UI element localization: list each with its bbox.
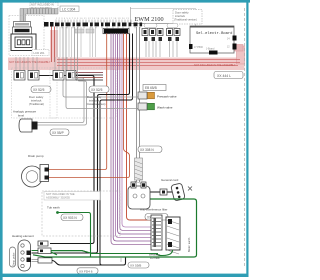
strip pin ticks <box>56 20 131 23</box>
prewash valve <box>138 92 177 99</box>
tub earth green wire <box>56 211 59 214</box>
svg-text:NOT INCLUDED IN THE ASSEMBLY: NOT INCLUDED IN THE ASSEMBLY <box>194 64 236 67</box>
ribbon cable horizontal <box>20 9 58 24</box>
mauve bundle vertical wires <box>111 34 151 245</box>
LCD label dashed <box>32 50 49 56</box>
label LC C306 <box>60 6 79 12</box>
top-left dashed note box <box>30 3 58 11</box>
svg-text:Door safely: Door safely <box>175 11 189 15</box>
svg-text:XX FD4 6: XX FD4 6 <box>79 270 93 274</box>
svg-text:Sel.electr.Board: Sel.electr.Board <box>196 31 232 36</box>
motor body <box>166 217 180 254</box>
green mains wire to right frame <box>33 199 197 257</box>
svg-text:level: level <box>18 114 24 118</box>
anti-interference filter body <box>128 158 150 209</box>
red flank wire left (to drain pump) <box>47 34 107 170</box>
svg-text:XX 308 N: XX 308 N <box>140 148 154 152</box>
bundle top connector <box>104 29 128 33</box>
pink ribbon from board connector <box>233 45 243 52</box>
door interlock group B connectors <box>53 71 76 81</box>
title box top line <box>131 8 196 10</box>
Sel electr Board box <box>189 26 237 55</box>
pressure switch wire pair <box>38 27 85 123</box>
teal page border bottom <box>0 274 249 277</box>
label leader <box>120 257 122 262</box>
motor earth green wire <box>156 250 173 256</box>
small connectors left of strip <box>44 22 49 27</box>
svg-text:J-Board: J-Board <box>206 48 215 51</box>
filter oval label <box>145 214 168 221</box>
teal page border left <box>0 0 3 280</box>
black wire pair from top right of bundle <box>32 34 130 254</box>
board connector bottom <box>209 51 218 55</box>
svg-text:Drain pump: Drain pump <box>28 154 44 158</box>
cluster ovals <box>144 24 157 28</box>
svg-text:General cord: General cord <box>161 178 179 182</box>
svg-text:LCD 201: LCD 201 <box>34 51 45 55</box>
svg-text:EWM 2100: EWM 2100 <box>135 16 164 23</box>
door interlock group A wires <box>16 57 37 70</box>
pink highlight vertical left <box>50 30 58 63</box>
teal page border top <box>0 0 250 3</box>
svg-text:Temp. probe: Temp. probe <box>13 252 16 266</box>
keyboard dashed panel <box>9 16 44 56</box>
red wires inside pink band <box>57 60 240 66</box>
svg-text:1/2 field: 1/2 field <box>150 256 160 260</box>
plug lead wire <box>148 191 172 193</box>
interlock B output wires <box>76 72 103 74</box>
faint gray wires from strip down to band <box>57 27 96 57</box>
svg-text:ASSEMBLY 302/055: ASSEMBLY 302/055 <box>46 196 70 200</box>
board connector right top <box>233 36 237 41</box>
svg-text:Prewash valve: Prewash valve <box>157 94 177 98</box>
svg-text:Anti-interference filter: Anti-interference filter <box>140 208 168 212</box>
tub earth dashed box <box>42 191 120 236</box>
interlock B dashed box <box>50 68 116 118</box>
red wire 2 (to drain pump) <box>47 34 130 178</box>
red wires in left pink riser <box>52 27 55 63</box>
svg-text:interlock: interlock <box>175 14 186 18</box>
board connector left <box>189 44 193 49</box>
interlock A oval label <box>31 86 51 93</box>
drain pump symbol <box>22 165 50 188</box>
temperature probe <box>10 247 16 267</box>
diagram frame right dashed line <box>244 8 246 268</box>
svg-text:Wash valve: Wash valve <box>157 105 173 109</box>
gray cord pair down to filter <box>137 27 140 182</box>
heater green wires connector <box>38 248 51 254</box>
door interlock group A connectors <box>14 71 39 81</box>
svg-text:XX 52/5: XX 52/5 <box>91 88 103 92</box>
interlock B oval label <box>89 86 109 93</box>
motor connector block <box>151 215 162 250</box>
svg-text:XX 55/B: XX 55/B <box>130 264 141 268</box>
svg-text:Analogic pressure: Analogic pressure <box>13 110 37 114</box>
paper background <box>0 0 250 280</box>
pressure oval label <box>50 129 69 136</box>
pink highlight vertical right riser <box>237 46 245 64</box>
label under band right <box>214 72 243 79</box>
svg-text:XX 903 N: XX 903 N <box>63 216 77 220</box>
teal page border right <box>246 0 248 277</box>
black wire from interlock to heater column <box>39 76 94 244</box>
prewash valve label box <box>143 85 166 91</box>
heater gray pair bottom <box>32 260 41 262</box>
callout leader <box>166 24 173 29</box>
strip gray label boxes <box>75 29 84 33</box>
title underline <box>131 23 196 25</box>
valve feed wires <box>63 27 147 97</box>
svg-text:XX 52/5: XX 52/5 <box>33 88 45 92</box>
heater black wire connector <box>38 241 48 246</box>
svg-text:Motor earth: Motor earth <box>187 237 191 252</box>
right connector cluster 1 <box>142 29 163 42</box>
door interlock group B wires <box>55 57 71 70</box>
red flank wire right (to motor) <box>127 34 152 221</box>
display connector <box>14 22 31 28</box>
pressure switch symbol <box>19 119 38 132</box>
svg-text:1 2 3 4 5 6 7 8 9 10 11 12 13: 1 2 3 4 5 6 7 8 9 10 11 12 13 14 15 16 1… <box>56 18 130 20</box>
svg-text:(Traditional version): (Traditional version) <box>174 18 197 22</box>
svg-text:XX 55/P: XX 55/P <box>52 131 64 135</box>
heating element body <box>18 240 31 271</box>
door safety callout dashed box <box>173 10 202 25</box>
cluster wires down <box>146 41 177 57</box>
title box left edge <box>130 7 132 24</box>
wash valve <box>138 103 173 110</box>
svg-text:J7 P500: J7 P500 <box>194 46 203 49</box>
svg-text:NOT INCLUDED IN THE: NOT INCLUDED IN THE <box>46 192 75 196</box>
svg-text:EB 65/B: EB 65/B <box>145 86 157 90</box>
svg-text:(Traditional): (Traditional) <box>29 102 44 106</box>
tub earth oval label <box>61 214 83 221</box>
general cord plug <box>171 183 186 201</box>
svg-text:Tub earth: Tub earth <box>47 206 60 210</box>
heater green wire upper <box>32 251 159 254</box>
interlock A dashed box <box>12 68 58 118</box>
svg-text:XX 444 L: XX 444 L <box>217 74 231 78</box>
right connector cluster 2 <box>167 29 181 42</box>
svg-text:LC C304: LC C304 <box>62 7 75 11</box>
bottom oval label right <box>128 262 149 268</box>
bottom black wire <box>52 258 126 266</box>
mid oval label on cord <box>138 146 162 153</box>
pink highlight band horizontal (not-included route) <box>8 58 245 71</box>
LED display box <box>11 34 36 51</box>
frame jog vertical near title <box>195 9 197 27</box>
bottom oval label left <box>77 268 98 274</box>
board connector right lower <box>233 44 237 50</box>
svg-text:NOT INCLUDED IN THE ASSEMBLY: NOT INCLUDED IN THE ASSEMBLY <box>9 61 51 64</box>
svg-text:Heating element: Heating element <box>12 234 34 238</box>
top connector strip <box>55 23 142 27</box>
keyboard black bar box <box>13 27 32 34</box>
plug arrow <box>188 187 192 191</box>
svg-text:(Instantaneous): (Instantaneous) <box>86 102 106 106</box>
